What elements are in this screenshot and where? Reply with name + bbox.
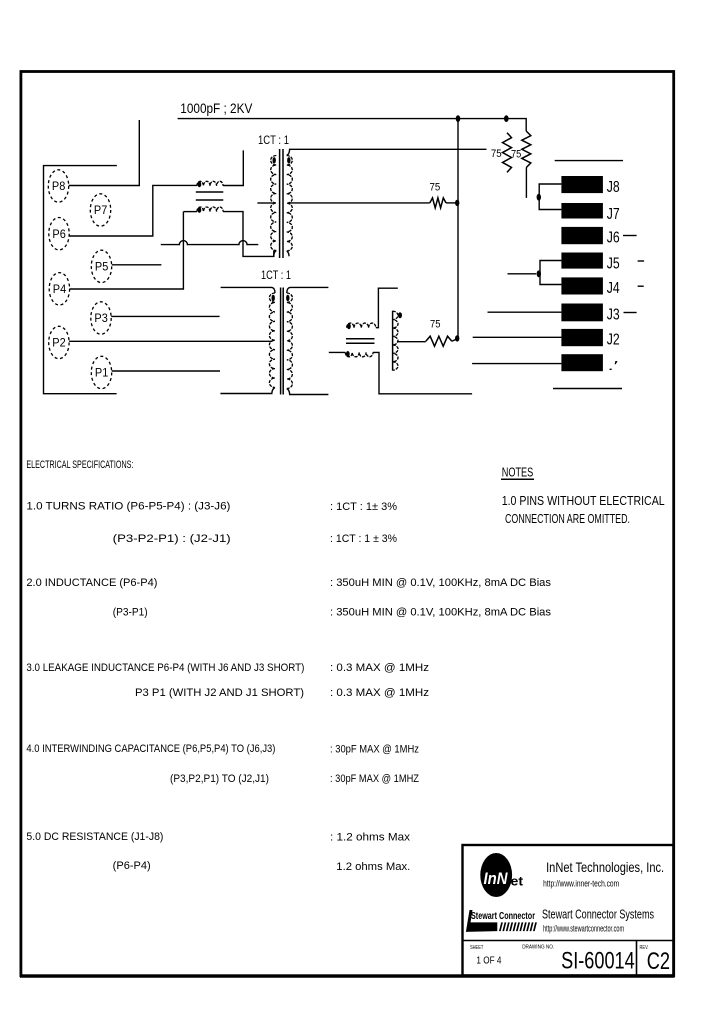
resistor R2 75 ohm vertical xyxy=(491,133,512,173)
svg-text:1.2 ohms Max.: 1.2 ohms Max. xyxy=(336,861,410,873)
svg-text:75: 75 xyxy=(511,149,521,161)
node dot T1 tap / R1 / bus xyxy=(455,200,459,206)
svg-text:P4: P4 xyxy=(53,284,67,296)
transformer T2 core xyxy=(281,288,284,395)
title block divider horizontal xyxy=(463,940,674,942)
wire T3 bottom coil left stub xyxy=(329,351,346,353)
wire stub into J5-J4 node xyxy=(508,273,537,275)
transformer T1 secondary winding xyxy=(287,156,293,252)
svg-text:1.0 TURNS RATIO (P6-P5-P4) : (: 1.0 TURNS RATIO (P6-P5-P4) : (J3-J6) xyxy=(26,501,230,513)
svg-text:NOTES: NOTES xyxy=(502,465,534,480)
transformer T3 bottom coil xyxy=(345,351,373,357)
stub right of J5 xyxy=(638,260,645,262)
svg-text:SI-60014: SI-60014 xyxy=(561,948,635,975)
pin P2 xyxy=(49,326,69,358)
svg-text:Stewart Connector: Stewart Connector xyxy=(471,910,535,922)
pin P7 xyxy=(90,194,110,226)
svg-text:P2: P2 xyxy=(52,338,65,350)
node dot on top bus (x458) xyxy=(456,115,461,122)
svg-text:: 0.3 MAX @ 1MHz: : 0.3 MAX @ 1MHz xyxy=(330,662,429,674)
svg-text:5.0 DC RESISTANCE (J1-J8): 5.0 DC RESISTANCE (J1-J8) xyxy=(26,831,163,843)
svg-text:J3: J3 xyxy=(607,306,620,323)
svg-text:: 1.2 ohms Max: : 1.2 ohms Max xyxy=(330,832,411,844)
svg-text:J8: J8 xyxy=(607,179,620,196)
wire T3 center tap to R4 xyxy=(397,341,426,343)
wire P5 stub xyxy=(112,264,162,266)
resistor R1 75 ohm xyxy=(430,182,456,208)
svg-text:P3: P3 xyxy=(94,313,107,325)
svg-text:2.0 INDUCTANCE (P6-P4): 2.0 INDUCTANCE (P6-P4) xyxy=(26,577,157,589)
Stewart Connector logo xyxy=(466,910,537,932)
svg-text:et: et xyxy=(511,874,524,889)
wire T1 primary bottom lead xyxy=(274,251,277,257)
svg-text:: 30pF MAX @ 1MHZ: : 30pF MAX @ 1MHZ xyxy=(330,773,419,785)
svg-text:P6: P6 xyxy=(52,229,65,241)
svg-text:1 OF 4: 1 OF 4 xyxy=(476,956,501,967)
stub right of J4 xyxy=(638,285,644,287)
svg-text:: 350uH MIN @ 0.1V, 100KHz, 8m: : 350uH MIN @ 0.1V, 100KHz, 8mA DC Bias xyxy=(330,577,551,589)
wire L1 top-right lead stub up xyxy=(223,150,243,185)
wire L1 bottom-left lead xyxy=(183,211,197,213)
svg-text:: 0.3 MAX @ 1MHz: : 0.3 MAX @ 1MHz xyxy=(330,687,429,699)
svg-text:.′: .′ xyxy=(608,358,619,373)
connector outline line below J1 xyxy=(553,388,622,390)
transformer T2 secondary winding xyxy=(286,293,292,388)
wire T2 secondary bottom lead xyxy=(287,389,329,395)
svg-text:J6: J6 xyxy=(607,230,620,247)
pin P5 xyxy=(91,250,111,282)
node dot bracket J8-J7 xyxy=(537,194,541,201)
svg-text:DRAWING NO.: DRAWING NO. xyxy=(522,945,554,951)
svg-text:P1: P1 xyxy=(95,368,108,380)
svg-text:: 1CT : 1± 3%: : 1CT : 1± 3% xyxy=(330,501,397,513)
wire bracket J8-J7 xyxy=(539,184,561,210)
wire T2 primary bottom lead xyxy=(220,388,275,394)
pin P8 xyxy=(48,170,68,202)
wire P8 to stub node xyxy=(69,120,140,186)
svg-text:75: 75 xyxy=(430,182,441,194)
jack pin J7 xyxy=(561,203,619,223)
svg-text:(P3-P1): (P3-P1) xyxy=(113,607,148,619)
jack pin J2 xyxy=(561,329,619,349)
svg-text:P3 P1 (WITH J2 AND J1 SHORT): P3 P1 (WITH J2 AND J1 SHORT) xyxy=(135,687,304,699)
svg-text:J2: J2 xyxy=(607,332,620,349)
choke L1 top winding xyxy=(197,181,223,187)
node dot R4 / bus xyxy=(455,335,459,341)
pin group bracket (left enclosure) xyxy=(44,166,117,394)
svg-text:InNet Technologies, Inc.: InNet Technologies, Inc. xyxy=(546,859,664,875)
svg-text:J4: J4 xyxy=(607,280,620,297)
svg-text:1CT : 1: 1CT : 1 xyxy=(258,133,289,147)
wire T2 secondary top lead xyxy=(287,287,329,293)
pin P6 xyxy=(49,218,69,250)
svg-text:75: 75 xyxy=(491,148,502,160)
wire T1 secondary top lead xyxy=(287,149,487,155)
jack pin J3 xyxy=(561,304,619,324)
wire L1 bottom-right lead to T1 xyxy=(223,212,274,257)
svg-text:J7: J7 xyxy=(607,206,620,223)
transformer T3 core lines xyxy=(346,339,375,344)
resistor R3 75 ohm vertical xyxy=(511,131,531,198)
wire T1 secondary bottom tail xyxy=(287,251,289,256)
node dot bracket J5-J4 xyxy=(537,270,541,277)
wire to J3 xyxy=(488,311,562,313)
svg-text:SHEET: SHEET xyxy=(470,945,484,951)
pin P4 xyxy=(49,273,69,305)
svg-text:P7: P7 xyxy=(94,205,107,217)
wire T3 bottom coil right lead down xyxy=(373,352,472,393)
svg-text:3.0 LEAKAGE INDUCTANCE P6-P4 (: 3.0 LEAKAGE INDUCTANCE P6-P4 (WITH J6 AN… xyxy=(26,662,304,674)
stub right of J6 xyxy=(623,235,637,237)
transformer T3 top coil xyxy=(347,323,376,329)
svg-text:ELECTRICAL SPECIFICATIONS:: ELECTRICAL SPECIFICATIONS: xyxy=(26,459,133,471)
choke L1 bottom winding xyxy=(197,207,223,213)
wire floating jumper with hops xyxy=(161,241,258,245)
jack pin J6 xyxy=(561,227,619,247)
InNet logo xyxy=(480,853,523,897)
stub right of J3 xyxy=(624,312,637,314)
svg-text:4.0 INTERWINDING CAPACITANCE (: 4.0 INTERWINDING CAPACITANCE (P6,P5,P4) … xyxy=(26,743,275,755)
transformer T1 core xyxy=(280,149,283,258)
svg-text:(P6-P4): (P6-P4) xyxy=(113,860,151,872)
svg-text:75: 75 xyxy=(430,318,441,330)
node dot on top bus (x506) xyxy=(504,115,509,122)
wire P1 stub xyxy=(112,370,220,372)
transformer T3 right winding backbone xyxy=(393,311,402,371)
wire vertical bus x458 xyxy=(457,119,459,339)
svg-text:1CT : 1: 1CT : 1 xyxy=(261,270,291,282)
wire T2 primary top lead xyxy=(221,287,275,293)
svg-text:http://www.stewartconnector.co: http://www.stewartconnector.com xyxy=(543,924,624,934)
svg-text:(P3,P2,P1) TO (J2,J1): (P3,P2,P1) TO (J2,J1) xyxy=(170,773,269,785)
svg-text:http://www.inner-tech.com: http://www.inner-tech.com xyxy=(543,879,619,889)
wire P3 stub xyxy=(111,315,219,317)
svg-text:P8: P8 xyxy=(52,181,65,193)
svg-text:1000pF ; 2KV: 1000pF ; 2KV xyxy=(180,101,252,116)
wire bracket J5-J4 xyxy=(540,261,561,285)
svg-text:(P3-P2-P1) : (J2-J1): (P3-P2-P1) : (J2-J1) xyxy=(113,533,231,545)
jack pin J1 xyxy=(561,354,619,373)
pin P3 xyxy=(91,302,111,334)
svg-text:P5: P5 xyxy=(95,262,108,274)
wire top bus 1000pF/2KV xyxy=(178,119,527,132)
title block divider vertical (REV) xyxy=(636,941,638,976)
wire P4 riser to choke L1 lower xyxy=(70,212,184,289)
title block border xyxy=(463,845,674,976)
svg-text:C2: C2 xyxy=(647,948,670,975)
transformer T1 primary winding xyxy=(271,156,277,251)
svg-text:1.0 PINS WITHOUT ELECTRICAL: 1.0 PINS WITHOUT ELECTRICAL xyxy=(502,493,665,508)
wire P6 riser to choke L1 xyxy=(69,185,197,236)
wire T1 primary center tap stub xyxy=(257,202,272,204)
svg-text:: 1CT : 1 ± 3%: : 1CT : 1 ± 3% xyxy=(330,533,397,545)
choke L1 core lines xyxy=(196,192,224,200)
svg-text:CONNECTION ARE OMITTED.: CONNECTION ARE OMITTED. xyxy=(505,511,630,526)
pin P1 xyxy=(91,356,111,388)
jack pin J4 xyxy=(561,277,620,297)
transformer T2 primary winding xyxy=(269,293,275,388)
jack pin J5 xyxy=(561,253,619,273)
jack pin J8 xyxy=(561,176,619,196)
wire T3 top coil right lead riser xyxy=(376,288,398,328)
wire to J2 xyxy=(473,336,562,338)
svg-text:Stewart Connector Systems: Stewart Connector Systems xyxy=(542,908,654,922)
wire to J1 xyxy=(472,363,561,365)
svg-text:J5: J5 xyxy=(607,255,620,272)
wire T1 secondary center tap to R1 xyxy=(288,202,430,204)
resistor R4 75 ohm xyxy=(426,318,457,346)
connector outline line above J8 xyxy=(555,160,623,162)
svg-text:: 30pF MAX @ 1MHz: : 30pF MAX @ 1MHz xyxy=(330,744,419,756)
svg-text:: 350uH MIN @ 0.1V, 100KHz, 8m: : 350uH MIN @ 0.1V, 100KHz, 8mA DC Bias xyxy=(330,607,551,619)
svg-text:InN: InN xyxy=(484,869,509,888)
wire P2 to T2 primary center tap xyxy=(69,340,272,342)
